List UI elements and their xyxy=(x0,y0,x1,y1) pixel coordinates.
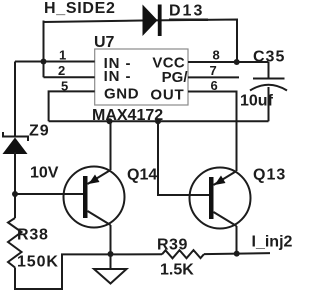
wire left rail top xyxy=(14,62,16,137)
wire top horizontal H_SIDE2 to D13 to VCC drop xyxy=(44,20,238,63)
D13 label xyxy=(169,3,208,22)
diode D13 xyxy=(143,5,162,37)
emitter wire xyxy=(110,121,112,170)
wire bottom left loop xyxy=(15,254,162,289)
node junction left rail / Q14 base xyxy=(12,191,18,197)
resistor R39 xyxy=(162,250,204,258)
node junction GND / Q13 base drop xyxy=(155,118,161,124)
base wire xyxy=(15,193,83,195)
svg-text:R38: R38 xyxy=(17,227,49,244)
R39 label xyxy=(157,237,188,254)
svg-text:I_inj2: I_inj2 xyxy=(252,234,293,251)
wire pin 6 OUT xyxy=(188,92,237,172)
Z9 label xyxy=(29,123,50,140)
R38 label xyxy=(17,227,49,244)
svg-text:Q13: Q13 xyxy=(253,167,286,184)
wire pin 7 PG xyxy=(188,76,239,78)
transistor Q14 xyxy=(15,121,125,254)
svg-text:2: 2 xyxy=(58,63,65,78)
wire pin 8 VCC xyxy=(188,61,269,63)
emitter wire xyxy=(214,171,237,185)
svg-text:U7: U7 xyxy=(94,34,115,51)
svg-text:1: 1 xyxy=(59,48,66,63)
Q13 label xyxy=(253,167,286,184)
wire left rail middle xyxy=(14,152,16,218)
C35 label xyxy=(253,49,285,66)
U7 pin name texts xyxy=(104,55,189,104)
wire pin 5 GND xyxy=(49,91,95,121)
transistor Q13 xyxy=(158,121,251,254)
ground xyxy=(94,254,127,284)
svg-text:5: 5 xyxy=(61,78,68,93)
node junction GND / Q14 emitter xyxy=(107,118,113,124)
node junction VCC xyxy=(234,59,240,65)
resistor R38 xyxy=(8,218,22,268)
MAX4172 label xyxy=(92,107,163,124)
wire bottom right xyxy=(204,253,270,254)
svg-text:D13: D13 xyxy=(169,3,204,20)
Z9 value 10V xyxy=(30,165,59,182)
node I_inj2 label xyxy=(252,234,293,251)
pin number 1 xyxy=(59,48,66,63)
wire vertical from top wire to pin1/pin2 xyxy=(43,21,45,78)
node junction ground / Q14 collector xyxy=(108,251,114,257)
svg-text:10uf: 10uf xyxy=(240,93,274,110)
svg-text:10V: 10V xyxy=(30,165,59,182)
R39 value 1.5K xyxy=(160,262,194,279)
pin number 5 xyxy=(61,78,68,93)
wire pin 1 xyxy=(15,61,95,63)
Q14 label xyxy=(127,167,157,184)
wire pin 2 xyxy=(44,76,95,78)
svg-text:1.5K: 1.5K xyxy=(160,262,194,279)
base wire xyxy=(158,121,209,195)
node H_SIDE2 label xyxy=(44,0,116,17)
wire GND bus horizontal xyxy=(49,120,269,122)
svg-text:GND: GND xyxy=(104,86,139,103)
zener Z9 xyxy=(3,132,29,154)
U7 label xyxy=(94,34,115,51)
C35 value 10uf xyxy=(240,93,274,110)
svg-text:6: 6 xyxy=(211,78,218,93)
svg-text:PG/: PG/ xyxy=(162,69,189,86)
svg-text:Q14: Q14 xyxy=(127,167,157,184)
svg-text:H_SIDE2: H_SIDE2 xyxy=(44,0,116,17)
R38 value 150K xyxy=(17,254,59,271)
collector wire xyxy=(214,212,237,226)
svg-text:R39: R39 xyxy=(157,237,188,254)
svg-text:150K: 150K xyxy=(17,254,59,271)
svg-text:OUT: OUT xyxy=(150,87,184,104)
svg-text:C35: C35 xyxy=(253,49,285,66)
svg-text:8: 8 xyxy=(213,48,220,63)
pin number 8 xyxy=(213,48,220,63)
pin number 2 xyxy=(58,63,65,78)
svg-text:Z9: Z9 xyxy=(29,123,50,140)
pin number 7 xyxy=(210,63,217,78)
op-amp U7 box xyxy=(95,49,188,105)
pin number 6 xyxy=(211,78,218,93)
svg-text:IN -: IN - xyxy=(104,68,132,85)
collector wire xyxy=(88,211,111,225)
node junction pin1/pin2 xyxy=(41,59,47,65)
svg-text:7: 7 xyxy=(210,63,217,78)
capacitor C35 xyxy=(250,62,287,121)
node junction Q13 collector / output xyxy=(234,251,240,257)
